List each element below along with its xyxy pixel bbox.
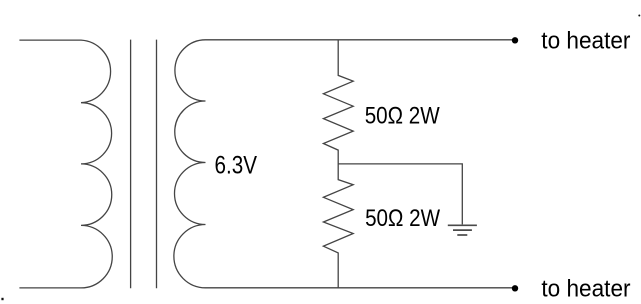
svg-text:to heater: to heater <box>541 275 630 302</box>
svg-text:to heater: to heater <box>541 27 630 54</box>
svg-text:50Ω 2W: 50Ω 2W <box>365 205 440 232</box>
svg-text:50Ω 2W: 50Ω 2W <box>365 102 440 129</box>
svg-text:6.3V: 6.3V <box>215 151 258 179</box>
